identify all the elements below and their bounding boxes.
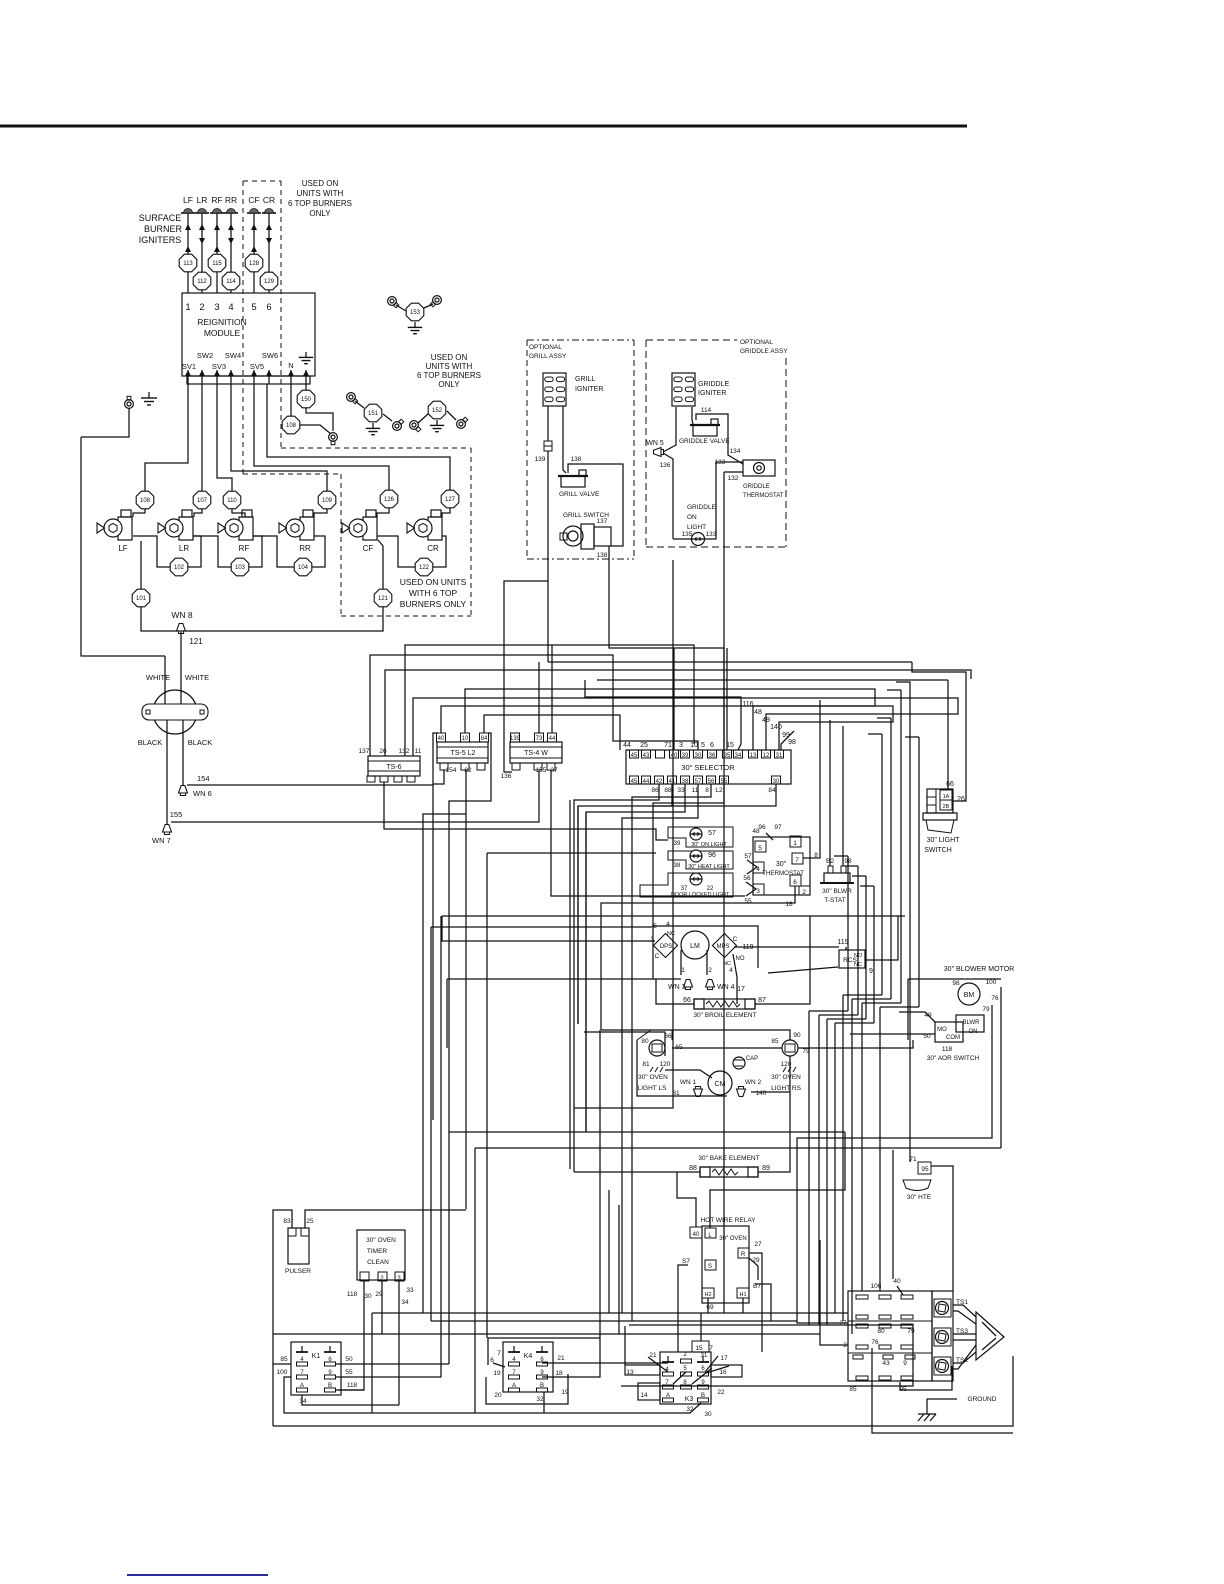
svg-text:ONLY: ONLY [438, 380, 460, 389]
svg-text:30" HTE: 30" HTE [907, 1194, 932, 1201]
wire 916 bus [442, 915, 905, 917]
svg-text:1: 1 [793, 840, 797, 847]
lock motor LM [681, 931, 709, 959]
wire 76 loop [872, 1348, 1013, 1433]
node 128 [245, 254, 263, 272]
svg-text:BLWR: BLWR [963, 1020, 981, 1026]
MPS switch [712, 933, 736, 957]
30-inch oven timer [357, 1230, 405, 1280]
wire-nut WN 1 [694, 1087, 703, 1097]
wire grill 136 drop [504, 581, 548, 772]
wire TS-6 bottom [384, 782, 433, 829]
wire k1-50 [335, 1363, 449, 1365]
svg-text:83: 83 [283, 1218, 291, 1225]
svg-text:108: 108 [286, 423, 297, 429]
svg-text:SW4: SW4 [225, 351, 241, 360]
svg-text:85: 85 [771, 1038, 779, 1045]
left ground sym [148, 392, 150, 398]
svg-text:109: 109 [322, 498, 333, 504]
wire timer 33 [398, 1281, 400, 1405]
dashed corridor 6-top-burners [243, 180, 281, 182]
svg-text:SV1: SV1 [182, 362, 196, 371]
svg-text:B: B [540, 1383, 544, 1389]
pulser [288, 1228, 309, 1264]
wire bus rel2 [431, 1320, 797, 1322]
grill switch [563, 526, 583, 546]
wire SW6 to 127 [267, 384, 450, 490]
svg-text:26: 26 [379, 748, 387, 755]
wire k1-85 [273, 1363, 291, 1365]
wire thermo7-8 [803, 700, 820, 858]
thermostat diagonals [766, 833, 773, 840]
svg-text:25: 25 [640, 742, 648, 749]
wire k1-118 [335, 1389, 364, 1391]
node 151 assembly [347, 393, 356, 402]
wire left bus [430, 927, 432, 1321]
svg-text:BM: BM [964, 992, 975, 999]
svg-text:50: 50 [345, 1356, 353, 1363]
svg-text:GRIDDLE: GRIDDLE [743, 484, 770, 490]
wire 127-CR [442, 508, 450, 517]
svg-text:87: 87 [758, 997, 766, 1004]
wire 155 bus [171, 771, 539, 822]
griddle thermostat [743, 460, 775, 476]
wire 82 branch [423, 814, 466, 1313]
svg-text:150: 150 [301, 397, 312, 403]
svg-text:137: 137 [359, 748, 370, 755]
svg-text:DOOR LOCKED LIGHT: DOOR LOCKED LIGHT [671, 892, 730, 898]
svg-text:45: 45 [631, 779, 638, 785]
svg-text:30" LIGHT: 30" LIGHT [927, 837, 961, 844]
node 127 [441, 490, 459, 508]
wire white right [180, 689, 182, 704]
svg-text:COM: COM [946, 1035, 960, 1041]
svg-text:18: 18 [785, 901, 793, 908]
wire 108-LF [133, 509, 145, 517]
svg-text:21: 21 [649, 1352, 657, 1359]
svg-text:A: A [512, 1383, 516, 1389]
svg-text:30" OVEN: 30" OVEN [638, 1074, 668, 1081]
svg-text:118: 118 [942, 1046, 953, 1053]
wire N to 108b [290, 384, 292, 416]
svg-text:30" OVEN: 30" OVEN [771, 1074, 801, 1081]
svg-text:17: 17 [720, 1355, 728, 1362]
svg-text:140: 140 [770, 724, 782, 731]
wire timer 118 [338, 1281, 364, 1390]
wire TS5 154 tab [433, 770, 444, 784]
wire-nut WN 2 [737, 1087, 746, 1097]
svg-text:30" BAKE ELEMENT: 30" BAKE ELEMENT [698, 1155, 759, 1162]
svg-text:128: 128 [249, 261, 260, 267]
svg-text:101: 101 [136, 596, 147, 602]
relay K3 [660, 1352, 711, 1404]
wire lightswitch 66 [947, 680, 949, 789]
svg-text:44: 44 [549, 736, 556, 742]
svg-text:LIGHT: LIGHT [687, 524, 706, 531]
wire grill-switch bus [609, 546, 724, 750]
svg-text:1: 1 [681, 967, 685, 974]
svg-text:L2: L2 [715, 787, 723, 794]
svg-text:UNITS WITH: UNITS WITH [426, 362, 473, 371]
svg-text:98: 98 [952, 980, 960, 987]
wire hwr29diag [749, 1258, 758, 1280]
wire cascade 116 [585, 680, 741, 750]
svg-text:22: 22 [717, 1389, 725, 1396]
wire SV1 to 108 [145, 384, 188, 491]
svg-text:108: 108 [140, 498, 151, 504]
svg-text:86: 86 [651, 787, 659, 794]
svg-text:139: 139 [510, 736, 521, 742]
svg-text:K3: K3 [685, 1396, 694, 1403]
svg-text:C: C [655, 953, 660, 960]
svg-text:30: 30 [704, 1411, 712, 1418]
svg-text:B: B [701, 1393, 705, 1399]
svg-text:B: B [328, 1383, 332, 1389]
svg-text:138: 138 [571, 456, 582, 463]
wire grill ign left [547, 406, 549, 441]
svg-text:43: 43 [643, 753, 650, 759]
svg-text:S7: S7 [682, 1258, 690, 1265]
svg-text:BURNER: BURNER [144, 224, 183, 234]
svg-text:49: 49 [762, 717, 770, 724]
svg-text:GRIDDLE ASSY: GRIDDLE ASSY [740, 348, 788, 355]
svg-text:73: 73 [536, 736, 543, 742]
DPS switch [653, 933, 677, 957]
wire LR-103 [193, 536, 231, 567]
svg-text:7: 7 [795, 857, 799, 864]
convection motor CM [708, 1071, 732, 1095]
svg-text:MO: MO [937, 1027, 947, 1033]
svg-text:BLACK: BLACK [188, 738, 213, 747]
svg-text:40: 40 [693, 1232, 700, 1238]
node 129 [260, 272, 278, 290]
svg-text:95: 95 [921, 1166, 929, 1173]
wire black right [182, 720, 184, 788]
wire 73 up [538, 662, 540, 733]
wire bake right [758, 1092, 790, 1172]
svg-text:57: 57 [744, 853, 752, 860]
wire LF-101 [140, 541, 142, 589]
svg-text:30" OVEN: 30" OVEN [366, 1237, 396, 1244]
burner valve LF [118, 517, 132, 540]
svg-text:112: 112 [197, 279, 207, 285]
wire lightswitch 26 [912, 662, 966, 801]
optional grill assy box [527, 339, 634, 341]
svg-text:113: 113 [183, 261, 193, 267]
svg-text:GRIDDLE VALVE: GRIDDLE VALVE [679, 438, 730, 445]
wire [268, 213, 270, 293]
svg-text:118: 118 [347, 1291, 358, 1298]
svg-text:CR: CR [263, 195, 275, 205]
svg-text:27: 27 [754, 1241, 762, 1248]
svg-text:31: 31 [701, 1353, 708, 1359]
node 114 [222, 272, 240, 290]
svg-text:71: 71 [664, 742, 672, 749]
svg-text:THERMOSTAT: THERMOSTAT [743, 493, 784, 499]
svg-text:CLEAN: CLEAN [367, 1259, 389, 1266]
svg-text:129: 129 [264, 279, 275, 285]
wire RF-104 [253, 536, 294, 567]
svg-text:SURFACE: SURFACE [139, 213, 182, 223]
svg-text:LF: LF [118, 544, 127, 553]
svg-text:TS-4 W: TS-4 W [524, 750, 548, 757]
wire light left [672, 533, 674, 539]
node 108b [282, 416, 300, 434]
wire 104-RR [312, 536, 325, 567]
svg-text:122: 122 [419, 565, 430, 571]
svg-text:LR: LR [197, 195, 208, 205]
svg-text:84: 84 [768, 787, 776, 794]
svg-text:40: 40 [893, 1278, 901, 1285]
wire 106-2 [820, 1240, 848, 1345]
wire right bus [881, 734, 883, 995]
svg-text:TS-6: TS-6 [386, 764, 401, 771]
svg-text:WITH 6 TOP: WITH 6 TOP [409, 588, 458, 598]
wire black left [166, 720, 168, 824]
svg-text:GRILL ASSY: GRILL ASSY [529, 353, 567, 360]
svg-text:19: 19 [493, 1370, 501, 1377]
svg-text:USED ON: USED ON [431, 353, 468, 362]
wire pulser 83 [273, 1210, 292, 1426]
module ground pin [305, 352, 307, 357]
svg-text:5: 5 [251, 302, 256, 313]
svg-text:21: 21 [557, 1355, 565, 1362]
svg-text:20: 20 [494, 1392, 502, 1399]
wire 90 [601, 1030, 790, 1040]
svg-text:REIGNITION: REIGNITION [197, 317, 247, 327]
svg-text:89: 89 [762, 1165, 770, 1172]
broil element [694, 999, 755, 1009]
wire lm1 [680, 950, 682, 975]
svg-text:K4: K4 [524, 1353, 533, 1360]
wire griddle ign right [692, 407, 693, 424]
wire 98t [842, 726, 844, 866]
wire bus h137 [370, 655, 698, 756]
wire sel 57 down [622, 784, 698, 1313]
svg-text:OPTIONAL: OPTIONAL [740, 339, 773, 346]
burner valve LR [179, 517, 193, 540]
svg-text:MODULE: MODULE [204, 328, 241, 338]
wire bus bot1 [284, 1377, 701, 1413]
wire 49 [899, 1012, 935, 1022]
burner valve CF [363, 517, 377, 540]
wire bm1 [797, 1005, 992, 1323]
node 104 [294, 558, 312, 576]
svg-text:55: 55 [345, 1369, 353, 1376]
wire sel 38 down [586, 784, 685, 1132]
wire grill ign right [563, 406, 566, 473]
terminal strip TS-5 L2 [437, 742, 488, 763]
svg-text:5: 5 [701, 742, 705, 749]
k4 enclosure [488, 1338, 600, 1365]
k3 wires [624, 1326, 626, 1365]
svg-text:ONLY: ONLY [309, 209, 331, 218]
svg-text:GRILL: GRILL [575, 376, 595, 383]
wire SW2 to 107 [201, 384, 203, 491]
svg-text:ON: ON [969, 1029, 978, 1035]
svg-text:100: 100 [986, 979, 997, 986]
k3 enclosure [621, 1325, 913, 1386]
svg-text:79: 79 [907, 1328, 915, 1335]
wire rcs9 [865, 916, 898, 960]
svg-text:USED ON: USED ON [302, 179, 339, 188]
node 103 [231, 558, 249, 576]
svg-text:30" BLOWER MOTOR: 30" BLOWER MOTOR [944, 966, 1014, 973]
svg-text:118: 118 [347, 1382, 358, 1389]
wire bus rel3 [273, 1333, 820, 1335]
svg-text:LIGHT LS: LIGHT LS [638, 1085, 667, 1092]
wire k4-6 [493, 1363, 505, 1367]
wire sel 42 down [574, 784, 659, 1172]
wire k4-21 [542, 1362, 668, 1364]
wire bus h10 [465, 689, 875, 750]
svg-text:76: 76 [991, 995, 999, 1002]
node 122 [415, 558, 433, 576]
svg-text:5: 5 [653, 923, 657, 930]
svg-text:154: 154 [446, 767, 457, 774]
svg-text:155: 155 [536, 767, 547, 774]
wire 37 down [551, 770, 745, 896]
wire white left [164, 656, 166, 704]
svg-text:CAP: CAP [746, 1056, 758, 1062]
wire 154 to TS-5 [187, 733, 438, 785]
svg-text:7: 7 [497, 1350, 501, 1357]
svg-text:38: 38 [674, 863, 681, 869]
svg-text:17: 17 [737, 986, 745, 993]
wire k1-55 [335, 916, 441, 1377]
svg-text:155: 155 [170, 810, 183, 819]
wire bm2 [475, 1147, 1001, 1149]
wire ring to left bus [81, 409, 129, 437]
wire cm left [665, 1070, 712, 1078]
wire hwr40 [677, 1172, 696, 1227]
svg-text:3: 3 [214, 302, 219, 313]
svg-text:9: 9 [869, 968, 873, 975]
svg-text:80: 80 [877, 1328, 885, 1335]
wire hwrL [710, 1132, 845, 1228]
svg-text:34: 34 [401, 1299, 409, 1306]
svg-text:96: 96 [708, 852, 716, 859]
svg-text:LM: LM [690, 943, 700, 950]
dashed box 6-top-burners valves [281, 447, 471, 449]
svg-text:95: 95 [899, 1386, 907, 1393]
burner valve RR [300, 517, 314, 540]
wire CF-121 [378, 540, 383, 589]
wire 927 bus [431, 926, 652, 928]
ts column [932, 1291, 953, 1381]
svg-text:WN 6: WN 6 [193, 789, 212, 798]
svg-text:K1: K1 [312, 1353, 321, 1360]
wire sel 30 down [653, 784, 776, 806]
AOR switch [935, 1022, 963, 1042]
svg-text:151: 151 [368, 411, 379, 417]
svg-text:2: 2 [708, 967, 712, 974]
svg-text:39: 39 [674, 841, 681, 847]
svg-text:GRIDDLE: GRIDDLE [698, 381, 729, 388]
svg-text:55: 55 [744, 898, 752, 905]
wire pulser 25 [305, 1210, 466, 1228]
svg-text:SW6: SW6 [262, 351, 278, 360]
svg-text:7: 7 [709, 1345, 713, 1352]
svg-text:A: A [666, 1393, 670, 1399]
svg-text:WN 5: WN 5 [646, 440, 664, 447]
svg-text:3: 3 [679, 742, 683, 749]
svg-text:TS-5 L2: TS-5 L2 [451, 750, 476, 757]
wire-nut WN 4 [706, 980, 715, 990]
svg-text:4: 4 [666, 921, 670, 928]
wire broil left [656, 979, 694, 1004]
svg-text:2: 2 [199, 302, 204, 313]
wire sel 56 down [632, 784, 711, 1321]
wire bus rel1 [372, 1312, 848, 1314]
svg-text:SV3: SV3 [212, 362, 226, 371]
wire bus h11 [413, 698, 958, 756]
grill valve loop [568, 464, 623, 546]
svg-text:USED ON UNITS: USED ON UNITS [400, 577, 467, 587]
blower motor BM [958, 983, 980, 1005]
node 115 [208, 254, 226, 272]
wire [253, 213, 255, 293]
wire thermo18 [601, 886, 795, 1030]
svg-text:2: 2 [802, 889, 806, 896]
svg-text:152: 152 [432, 408, 443, 414]
svg-text:IGNITER: IGNITER [575, 386, 603, 393]
node 113 [179, 254, 197, 272]
oven light box path [637, 1040, 727, 1096]
svg-text:33: 33 [677, 787, 685, 794]
svg-text:4: 4 [729, 967, 733, 974]
svg-text:134: 134 [730, 448, 741, 455]
svg-text:SW2: SW2 [197, 351, 213, 360]
wire SW4 to 109 [231, 384, 327, 491]
wire 122-CR [433, 536, 446, 567]
node 107 [193, 491, 211, 509]
wire sel 41 down [578, 784, 672, 1024]
wire 107-LR [194, 509, 202, 517]
svg-text:CR: CR [427, 544, 439, 553]
svg-text:44: 44 [623, 742, 631, 749]
svg-text:85: 85 [849, 1386, 857, 1393]
svg-text:27: 27 [839, 1320, 847, 1327]
svg-text:IGNITERS: IGNITERS [139, 235, 182, 245]
svg-text:76: 76 [871, 1339, 879, 1346]
wire k4-18 [542, 1321, 600, 1377]
svg-text:PULSER: PULSER [285, 1268, 311, 1275]
wire b2 [829, 720, 831, 866]
wire 71 drop [673, 648, 675, 750]
grill igniter [543, 373, 566, 406]
svg-text:154: 154 [197, 774, 210, 783]
svg-text:SV5: SV5 [250, 362, 264, 371]
node 101 [132, 589, 150, 607]
svg-text:66: 66 [946, 781, 954, 788]
svg-text:SWITCH: SWITCH [924, 847, 952, 854]
door locked light [640, 873, 733, 897]
30-inch selector switch [626, 750, 791, 784]
optional griddle assy box [646, 339, 737, 341]
svg-text:6: 6 [793, 879, 797, 886]
svg-text:LF: LF [183, 195, 193, 205]
svg-text:11: 11 [415, 748, 422, 755]
svg-text:30" AOR SWITCH: 30" AOR SWITCH [927, 1055, 980, 1062]
wire bus h132 [405, 645, 694, 756]
wire [230, 213, 232, 293]
30 on light [668, 827, 733, 847]
svg-text:RF: RF [239, 544, 250, 553]
wire-nut WN 3 [684, 980, 693, 990]
wire hwrB7 [755, 1284, 771, 1321]
svg-text:45: 45 [631, 753, 638, 759]
